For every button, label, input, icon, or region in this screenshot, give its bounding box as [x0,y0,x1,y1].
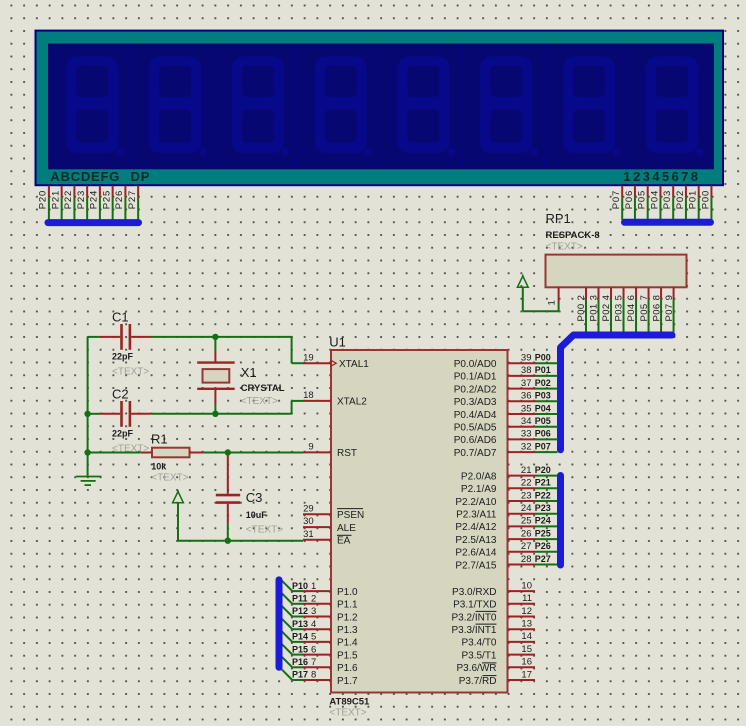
svg-text:P3.0/RXD: P3.0/RXD [452,587,496,598]
junction at C2/X1 bottom [212,411,218,417]
display digit 4 decimal point [364,148,372,156]
overline INT1 [476,623,497,625]
display digit 7 segments [563,57,621,157]
svg-text:P20: P20 [38,190,49,209]
svg-text:P1.0: P1.0 [337,587,358,598]
svg-text:P02: P02 [675,190,686,209]
svg-text:19: 19 [303,352,314,363]
U1 pin 25 P2.4/A12 wire to bus, net P24 [508,525,558,527]
U1 pin 3 P1.2 wire from bus [281,605,331,616]
svg-text:P12: P12 [292,606,308,616]
svg-text:P3.6/WR: P3.6/WR [456,663,496,674]
svg-text:P1.3: P1.3 [337,625,358,636]
RP1 pin 5 wire, net P03 [623,287,625,332]
overline RD [483,675,497,677]
svg-text:P13: P13 [292,619,308,629]
svg-text:P03 5: P03 5 [614,295,625,322]
svg-text:P04: P04 [649,190,660,209]
svg-text:C2: C2 [112,387,129,402]
U1 pin 19 XTAL1 [303,360,336,366]
wire EA net: power arrow to C3 to U1 pin 31 [178,503,303,541]
svg-text:P02: P02 [535,378,551,388]
svg-text:P20: P20 [535,465,551,475]
svg-text:9: 9 [308,442,313,453]
U1 pin 2 P1.1 wire from bus [281,593,331,604]
svg-text:R1: R1 [151,432,168,447]
svg-text:37: 37 [521,378,532,389]
svg-text:18: 18 [303,390,314,401]
RP1 pin 2 wire, net P00 [585,287,587,332]
svg-text:P1.1: P1.1 [337,600,358,611]
svg-text:P27: P27 [535,554,551,564]
bus from RP1 pins down to U1 port 0 (P00-P07) [561,335,673,450]
svg-text:PSEN: PSEN [337,510,364,521]
svg-text:P03: P03 [662,190,673,209]
svg-text:31: 31 [303,529,314,540]
svg-text:P24: P24 [89,190,100,209]
display digit pin wire, net P02 [685,186,687,221]
display digit divider 1 [130,44,132,170]
svg-text:P26: P26 [535,541,551,551]
svg-text:P2.1/A9: P2.1/A9 [461,484,497,495]
svg-text:39: 39 [521,353,532,364]
svg-text:ABCDEFG: ABCDEFG [50,169,120,184]
display digit 6 decimal point [530,148,538,156]
svg-text:15: 15 [521,644,532,655]
svg-text:30: 30 [303,516,314,527]
svg-text:P3.2/INT0: P3.2/INT0 [451,612,496,623]
display digit pin wire, net P06 [634,186,636,221]
display digit 6 segments [480,57,538,157]
junction RST/C3 [225,449,231,455]
U1 pin 21 P2.0/A8 wire to bus, net P20 [508,475,558,477]
svg-text:33: 33 [521,429,532,440]
svg-text:14: 14 [521,631,532,642]
microcontroller U1 AT89C51 body [331,350,508,693]
svg-text:P2.0/A8: P2.0/A8 [461,471,497,482]
RP1 pin 7 wire, net P05 [648,287,650,332]
U1 pin 35 P0.4/AD4 wire to bus, net P04 [508,413,558,415]
svg-text:P1.2: P1.2 [337,612,358,623]
U1 pin 4 P1.3 wire from bus [281,618,331,629]
svg-text:P00: P00 [535,353,551,363]
U1 pin 26 P2.5/A13 wire to bus, net P25 [508,538,558,540]
bus for display digit nets P00-P07 [625,219,711,226]
svg-text:38: 38 [521,365,532,376]
svg-text:12345678: 12345678 [623,169,700,184]
RP1 pin 9 wire, net P07 [673,287,675,332]
U1 pin 1 P1.0 wire from bus [281,580,331,591]
svg-text:32: 32 [521,441,532,452]
svg-text:P05: P05 [637,190,648,209]
svg-text:21: 21 [521,465,532,476]
svg-text:P1.6: P1.6 [337,663,358,674]
junction C2 left [84,411,90,417]
svg-text:10uF: 10uF [246,510,268,520]
svg-text:P1.7: P1.7 [337,676,358,687]
wire XTAL2 net: C2 to X1 bottom to U1 pin 18 [88,401,303,414]
svg-text:P22: P22 [63,190,74,209]
svg-text:P04 6: P04 6 [626,295,637,322]
svg-text:P06: P06 [624,190,635,209]
power symbol (VCC arrow) at RP1 pin 1 [517,276,528,287]
svg-text:P1.4: P1.4 [337,638,358,649]
svg-text:P25: P25 [101,190,112,209]
svg-text:<TEXT>: <TEXT> [241,396,278,407]
svg-text:P16: P16 [292,657,308,667]
RP1 pin 6 wire, net P04 [635,287,637,332]
bus for display segment nets P20-P27 [48,219,139,226]
wire XTAL1 net: C1 to X1 top to U1 pin 19 [88,337,303,363]
svg-text:22pF: 22pF [112,352,134,362]
display digit 7 decimal point [613,148,621,156]
svg-text:C1: C1 [112,310,129,325]
U1 pin 34 P0.5/AD5 wire to bus, net P05 [508,426,558,428]
svg-text:C3: C3 [246,490,263,505]
svg-text:10: 10 [521,580,532,591]
svg-text:1: 1 [311,581,316,592]
overline WR [482,662,497,664]
svg-text:RESPACK-8: RESPACK-8 [546,230,600,241]
svg-text:16: 16 [521,657,532,668]
svg-text:P3.4/T0: P3.4/T0 [461,638,496,649]
overline INT0 [476,610,497,612]
U1 pin 10 P3.0/RXD [508,590,536,592]
svg-text:<TEXT>: <TEXT> [329,708,366,719]
svg-text:P07 9: P07 9 [664,295,675,322]
display digit 5 segments [398,57,456,157]
resistor R1 [88,448,203,458]
bus for U1 port 1 (P10-P17) [276,580,283,667]
display digit pin wire, net P03 [672,186,674,221]
7-segment display module (8-digit, blue) [36,31,724,186]
display digit divider 4 [378,44,380,170]
U1 pin 31 EA [303,539,331,541]
U1 pin 33 P0.6/AD6 wire to bus, net P06 [508,438,558,440]
svg-text:36: 36 [521,391,532,402]
svg-text:P3.5/T1: P3.5/T1 [461,650,496,661]
display digit 1 segments [66,57,124,157]
svg-text:P01: P01 [535,365,551,375]
svg-text:P07: P07 [535,441,551,451]
wire RST net: R1 to C3 to U1 pin 9 [203,452,303,454]
svg-text:P11: P11 [292,594,308,604]
display digit pin wire, net P04 [659,186,661,221]
svg-text:29: 29 [303,503,314,514]
display digit 8 decimal point [696,148,704,156]
power symbol (VCC arrow) at EA [173,490,184,503]
U1 pin 6 P1.5 wire from bus [281,643,331,654]
capacitor C1 [100,324,152,350]
svg-text:P2.5/A13: P2.5/A13 [455,535,497,546]
svg-text:P02 4: P02 4 [601,295,612,322]
svg-text:24: 24 [521,503,532,514]
display digit 3 segments [232,57,290,157]
wire ground rail down left side [87,337,89,453]
U1 pin 30 ALE [303,526,331,528]
svg-text:DP: DP [131,169,151,184]
display segment pin wire, net P26 [124,186,126,221]
svg-text:3: 3 [311,606,316,617]
svg-text:RP1: RP1 [546,211,571,226]
svg-text:P2.2/A10: P2.2/A10 [455,497,497,508]
U1 pin 27 P2.6/A14 wire to bus, net P26 [508,551,558,553]
U1 pin 17 P3.7/RD [508,679,536,681]
svg-text:P1.5: P1.5 [337,650,358,661]
svg-text:P0.0/AD0: P0.0/AD0 [454,359,497,370]
svg-text:P24: P24 [535,516,551,526]
svg-text:<TEXT>: <TEXT> [546,242,583,253]
svg-text:P00 2: P00 2 [576,295,587,322]
U1 pin 9 RST [303,451,331,453]
U1 pin 39 P0.0/AD0 wire to bus, net P00 [508,362,558,364]
svg-text:8: 8 [311,670,316,681]
resistor pack RP1 RESPACK-8 body [546,255,687,288]
display segment pin wire, net P21 [61,186,63,221]
display digit 8 segments [646,57,704,157]
svg-text:P07: P07 [611,190,622,209]
svg-text:10k: 10k [151,462,167,472]
svg-text:EA: EA [337,536,351,547]
capacitor C3 [216,453,240,541]
crystal X1 [197,337,235,414]
display digit 2 decimal point [199,148,207,156]
display digit divider 6 [544,44,546,170]
display digit 5 decimal point [447,148,455,156]
RP1 pin 1 (common) wire to power rail [523,287,559,311]
U1 pin 29 PSEN [303,513,331,515]
svg-text:P0.4/AD4: P0.4/AD4 [454,410,497,421]
svg-text:4: 4 [311,619,316,630]
U1 pin 36 P0.3/AD3 wire to bus, net P03 [508,400,558,402]
U1 pin 7 P1.6 wire from bus [281,656,331,667]
display digit divider 3 [295,44,297,170]
svg-text:P05: P05 [535,416,551,426]
display segment pin wire, net P22 [73,186,75,221]
svg-text:2: 2 [311,594,316,605]
svg-text:17: 17 [521,669,532,680]
svg-text:25: 25 [521,516,532,527]
svg-text:P10: P10 [292,581,308,591]
RP1 pin 4 wire, net P02 [610,287,612,332]
junction EA/C3 [225,538,231,544]
display digit 4 segments [315,57,373,157]
svg-text:22pF: 22pF [112,429,134,439]
U1 pin 28 P2.7/A15 wire to bus, net P27 [508,564,558,566]
display segment pin wire, net P24 [99,186,101,221]
svg-text:P05 7: P05 7 [639,295,650,322]
svg-text:11: 11 [522,593,532,604]
svg-text:P2.4/A12: P2.4/A12 [455,522,497,533]
svg-text:P21: P21 [535,478,551,488]
display digit pin wire, net P01 [698,186,700,221]
svg-text:5: 5 [311,632,316,643]
svg-text:P01: P01 [688,190,699,209]
bus for U1 port 2 (P20-P27) [557,476,564,566]
svg-text:28: 28 [521,554,532,565]
svg-text:P23: P23 [76,190,87,209]
svg-text:CRYSTAL: CRYSTAL [241,383,285,394]
svg-text:ALE: ALE [337,523,356,534]
svg-text:P27: P27 [127,190,138,209]
svg-text:P15: P15 [292,644,308,654]
svg-text:P0.5/AD5: P0.5/AD5 [454,423,497,434]
svg-text:P14: P14 [292,632,308,642]
svg-text:23: 23 [521,490,532,501]
svg-text:6: 6 [311,644,316,655]
svg-text:<TEXT>: <TEXT> [151,473,188,484]
U1 pin 18 XTAL2 [303,400,331,402]
display digit divider 5 [461,44,463,170]
display segment pin wire, net P27 [137,186,139,221]
svg-text:P0.6/AD6: P0.6/AD6 [454,435,497,446]
svg-text:P03: P03 [535,391,551,401]
svg-text:P06 8: P06 8 [651,295,662,322]
svg-text:P0.3/AD3: P0.3/AD3 [454,397,497,408]
svg-text:13: 13 [521,619,532,630]
U1 pin 16 P3.6/WR [508,666,536,668]
RP1 pin 8 wire, net P06 [660,287,662,332]
U1 pin 22 P2.1/A9 wire to bus, net P21 [508,487,558,489]
svg-text:P0.2/AD2: P0.2/AD2 [454,384,497,395]
U1 pin 37 P0.2/AD2 wire to bus, net P02 [508,388,558,390]
svg-text:7: 7 [311,657,316,668]
svg-text:P21: P21 [50,190,61,209]
svg-text:<TEXT>: <TEXT> [112,366,149,377]
svg-text:XTAL1: XTAL1 [339,359,369,370]
svg-text:P2.3/A11: P2.3/A11 [456,510,497,521]
svg-text:P06: P06 [535,429,551,439]
svg-text:AT89C51: AT89C51 [329,697,370,708]
capacitor C2 [100,401,152,427]
display digit pin wire, net P07 [621,186,623,221]
U1 pin 13 P3.3/INT1 [508,628,536,630]
svg-text:P17: P17 [292,670,308,680]
junction R1 left [84,449,90,455]
svg-text:P0.7/AD7: P0.7/AD7 [454,448,497,459]
display segment pin wire, net P23 [86,186,88,221]
display digit 2 segments [149,57,207,157]
svg-text:27: 27 [521,541,532,552]
svg-text:P01 3: P01 3 [589,295,600,322]
svg-text:12: 12 [521,606,532,617]
svg-text:P3.7/RD: P3.7/RD [459,676,497,687]
svg-text:P2.6/A14: P2.6/A14 [455,548,497,559]
svg-text:P25: P25 [535,528,551,538]
svg-text:P22: P22 [535,490,551,500]
svg-text:34: 34 [521,416,532,427]
svg-text:P3.1/TXD: P3.1/TXD [453,600,496,611]
svg-text:XTAL2: XTAL2 [337,397,367,408]
display digit 1 decimal point [116,148,124,156]
svg-text:U1: U1 [329,335,346,350]
svg-text:P04: P04 [535,403,551,413]
svg-text:35: 35 [521,403,532,414]
display digit 3 decimal point [282,148,290,156]
U1 pin 15 P3.5/T1 [508,654,536,656]
display segment pin wire, net P25 [112,186,114,221]
U1 pin 24 P2.3/A11 wire to bus, net P23 [508,513,558,515]
svg-text:X1: X1 [241,365,257,380]
display digit divider 2 [213,44,215,170]
svg-text:P0.1/AD1: P0.1/AD1 [454,372,497,383]
U1 pin 23 P2.2/A10 wire to bus, net P22 [508,500,558,502]
svg-text:P2.7/A15: P2.7/A15 [455,560,497,571]
U1 pin 14 P3.4/T0 [508,641,536,643]
svg-text:P3.3/INT1: P3.3/INT1 [451,625,496,636]
U1 pin 11 P3.1/TXD [508,603,536,605]
U1 pin 32 P0.7/AD7 wire to bus, net P07 [508,451,558,453]
svg-text:RST: RST [337,448,357,459]
U1 pin 8 P1.7 wire from bus [281,669,331,680]
svg-text:P26: P26 [114,190,125,209]
svg-text:1: 1 [547,300,558,306]
svg-text:P00: P00 [700,190,711,209]
RP1 pin 3 wire, net P01 [598,287,600,332]
U1 pin 38 P0.1/AD1 wire to bus, net P01 [508,375,558,377]
display digit pin wire, net P05 [647,186,649,221]
ground symbol [76,453,102,486]
display segment pin wire, net P20 [48,186,50,221]
svg-text:P23: P23 [535,503,551,513]
svg-text:26: 26 [521,528,532,539]
U1 pin 12 P3.2/INT0 [508,616,536,618]
svg-text:22: 22 [521,478,532,489]
junction at C1/X1 top [212,334,218,340]
display digit pin wire, net P00 [710,186,712,221]
display digit divider 7 [627,44,629,170]
svg-text:<TEXT>: <TEXT> [246,525,283,536]
U1 pin 5 P1.4 wire from bus [281,631,331,642]
